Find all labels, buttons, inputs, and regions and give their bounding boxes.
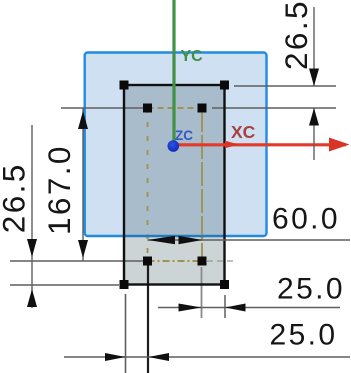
sketch inner rect right line (olive dashed) — [201, 108, 203, 261]
extension line inner-bottom right dashes — [207, 260, 237, 262]
face edge over sketch line crossing left — [146, 235, 150, 237]
dimension 26.5 top-right: up arrow — [309, 108, 319, 126]
corner handle bottom-left — [120, 280, 129, 289]
XC axis small arrowhead — [225, 141, 239, 148]
sketch inner rect bottom line (olive dashed) — [148, 260, 203, 262]
dimension 26.5 left: up arrow — [27, 289, 37, 307]
inner handle top-right — [198, 104, 207, 113]
dimension 26.5 top-right: down arrow — [309, 69, 319, 87]
dimension 167.0: line — [82, 108, 84, 261]
inner handle top-left — [143, 104, 152, 113]
planar face (blue highlighted rectangle) — [85, 53, 267, 237]
dimension 60.0: right arrow — [179, 236, 203, 245]
svg-text:XC: XC — [231, 122, 256, 142]
svg-text:60.0: 60.0 — [272, 203, 340, 236]
face edge over sketch line crossing right — [200, 235, 204, 237]
svg-text:167.0: 167.0 — [41, 144, 77, 235]
corner handle top-right — [220, 81, 229, 90]
extension line x=201.5 down — [201, 267, 203, 318]
dimension 25.0 upper: right-pointing arrow — [179, 304, 202, 312]
inner handle bottom-left — [143, 257, 152, 266]
extension line inner-bottom left (y=261) — [10, 260, 144, 262]
sketch inner rect top line (olive dashed) — [148, 107, 203, 109]
sketch line x=148 down (solid dark) — [147, 261, 149, 373]
extension line x=225 down — [224, 295, 226, 318]
dimension 25.0 lower: right-pointing arrow — [105, 353, 126, 361]
corner handle top-left — [120, 81, 129, 90]
corner handle bottom-right — [220, 280, 229, 289]
sketch inner rect left line (olive dashed) — [147, 108, 149, 261]
svg-text:25.0: 25.0 — [270, 319, 338, 352]
svg-text:26.5: 26.5 — [0, 162, 31, 233]
inner handle bottom-right — [198, 257, 207, 266]
XC axis big arrowhead — [329, 138, 350, 152]
XC axis line (red horizontal) — [172, 143, 346, 146]
dimension 25.0 upper: line — [158, 307, 340, 309]
YC axis (green vertical) — [172, 0, 175, 141]
dimension 25.0 lower: line — [64, 356, 350, 358]
extension line top (y=86) — [234, 85, 336, 87]
dimension 167.0: down arrow — [78, 240, 88, 258]
svg-text:YC: YC — [181, 48, 204, 65]
svg-text:ZC: ZC — [175, 128, 193, 143]
origin point (blue dot) — [168, 140, 180, 152]
dimension 60.0: left arrow — [148, 236, 176, 245]
dimension 26.5 left: line — [31, 125, 33, 308]
extension line x=125.5 down — [125, 294, 127, 373]
dimension 167.0: up arrow — [78, 111, 88, 129]
dimension 60.0: line — [148, 239, 351, 241]
dimension 26.5 left: down arrow — [27, 239, 37, 257]
dimension 26.5 top-right: line — [313, 7, 315, 86]
extension line inner-top left (y=108) — [61, 107, 144, 109]
section region shading (translucent dark overlay) — [124, 85, 225, 285]
extension line rect-bottom left (y=285) — [10, 284, 119, 286]
section outer rect border — [124, 85, 225, 285]
svg-text:25.0: 25.0 — [277, 273, 345, 306]
dimension 25.0 upper: left-pointing arrow — [225, 304, 246, 312]
extension line inner-top right (y=108) — [212, 107, 336, 109]
svg-text:26.5: 26.5 — [278, 0, 314, 70]
dimension 25.0 lower: left-pointing arrow — [148, 353, 169, 361]
